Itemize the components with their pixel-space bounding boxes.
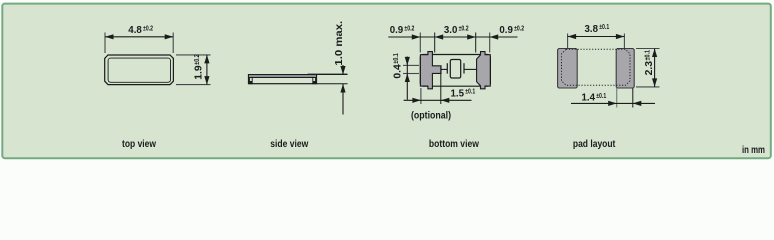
value label 0.4+-0.1 (rotated) [391,53,404,78]
extension line left of 4.8 dim [104,33,106,54]
svg-text:±0.1: ±0.1 [643,50,652,60]
extension lines for top dims of bottom view [419,33,421,53]
extension line top of 1.0 dim [308,73,348,75]
svg-text:3.8: 3.8 [585,23,599,35]
side view body bar [249,75,317,84]
side view right end pad [313,78,316,84]
svg-text:pad layout: pad layout [573,139,616,150]
extension lines of 2.3 dim [636,48,660,50]
svg-text:±0.1: ±0.1 [596,91,606,100]
dimension line 3.8 [568,36,625,38]
dimension line 1.0 lower segment with up arrow [342,84,344,115]
panel background [0,0,774,162]
value label 1.9+-0.2 (rotated) [192,54,205,79]
extension lines of 3.8 dim [567,34,569,49]
svg-text:2.3: 2.3 [643,61,655,76]
side view left end pad [250,78,253,84]
dimension line 1.0 upper segment with down arrow [342,65,344,75]
dimension line 1.9 [206,55,208,85]
svg-text:0.9: 0.9 [499,24,513,36]
extension lines of 1.5 dim [420,88,422,104]
svg-text:1.9: 1.9 [192,65,204,80]
svg-text:1.4: 1.4 [582,92,596,104]
extension lines of 1.4 dim [616,88,618,108]
bottom view package outline [420,55,490,87]
svg-text:±0.2: ±0.2 [459,24,469,33]
crystal right plate [463,63,465,73]
svg-text:1.5: 1.5 [451,87,465,99]
green border frame [2,4,771,159]
svg-text:±0.2: ±0.2 [192,54,201,64]
svg-text:±0.1: ±0.1 [599,22,609,31]
svg-text:(optional): (optional) [411,111,451,122]
crystal left plate [446,63,448,73]
svg-text:±0.1: ±0.1 [465,87,475,96]
extension line bottom of 1.0 dim [317,83,348,85]
side view lid (gray top band) [249,75,316,77]
dimension line 4.8 [105,36,173,38]
svg-text:1.0 max.: 1.0 max. [334,21,345,66]
crystal symbol wire left [442,68,448,70]
svg-text:in mm: in mm [742,145,765,156]
dotted crystal body outline [562,49,631,85]
pad layout left pad [558,49,578,89]
svg-text:±0.2: ±0.2 [143,24,153,33]
dimension line 1.5 [404,99,472,101]
svg-text:±0.2: ±0.2 [404,24,414,33]
svg-text:top view: top view [122,139,156,150]
value label 1.0 max. (rotated) [334,21,345,66]
dimension line 2.3 [654,49,656,87]
value label 2.3+-0.1 (rotated) [643,50,656,75]
bottom view left pad with electrode stub [420,52,441,89]
extension line right of 4.8 dim [172,33,174,54]
svg-text:side view: side view [270,139,308,150]
crystal element rect [450,60,460,79]
dimension line 0.4 [406,57,408,100]
bottom view right pad [477,52,491,89]
top view body outline [105,55,174,85]
svg-text:0.9: 0.9 [390,24,404,36]
top view inner rect [108,58,170,82]
dimension line 1.4 [571,102,655,104]
svg-text:±0.2: ±0.2 [514,24,524,33]
svg-text:4.8: 4.8 [128,24,142,36]
extension lines of 1.9 dim [176,54,211,56]
dimension line row (0.9 / 3.0 / 0.9) [388,36,517,38]
pad layout right pad [616,49,634,89]
svg-text:bottom view: bottom view [429,139,479,150]
svg-text:3.0: 3.0 [444,24,458,36]
extension lines of 0.4 dim [403,64,419,66]
crystal symbol wire right [464,68,477,70]
svg-text:±0.1: ±0.1 [391,53,400,63]
svg-text:0.4: 0.4 [391,64,403,79]
